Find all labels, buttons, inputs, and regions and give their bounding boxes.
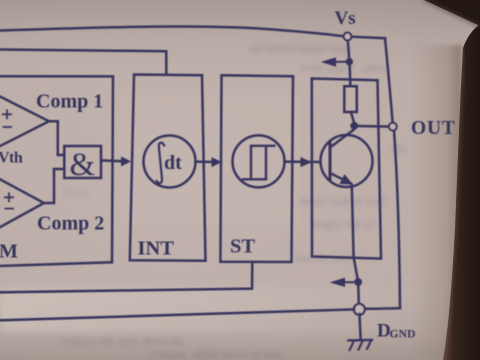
wire: right vertical drop from Vs rail to OUT terminal: [385, 38, 393, 123]
comp1 minus input mark: [4, 126, 12, 128]
current arrow at GND node: [345, 281, 355, 283]
wire: OUT terminal down right side: [394, 131, 400, 309]
wire: comp1 output to AND gate: [49, 121, 64, 155]
node: emitter/GND node: [355, 279, 362, 286]
wire: Vs terminal down to node: [348, 41, 349, 59]
wire: DGND terminal to ground symbol: [360, 314, 361, 339]
schmitt trigger circle: [233, 135, 285, 187]
wire: drop into INT box top: [165, 51, 168, 75]
transistor emitter stroke: [330, 173, 351, 184]
integral sign: [157, 143, 165, 184]
transistor collector stroke: [330, 126, 354, 148]
integrator circle U-INT: [144, 136, 196, 188]
AND gate box: [64, 146, 101, 178]
schmitt hysteresis glyph: [243, 146, 274, 180]
wire: resistor to collector node: [351, 112, 354, 122]
node: collector/OUT node: [351, 122, 358, 129]
wire: INT output toward ST with arrow: [196, 160, 217, 163]
schematic ink: [0, 26, 400, 349]
transistor base bar: [329, 142, 332, 180]
right dark photo edge: [443, 24, 480, 360]
wire: horizontal feed into INT top: [0, 50, 166, 52]
resistor R1: [344, 86, 357, 112]
comp1 plus input mark: [3, 110, 11, 118]
wire: emitter down to DGND: [352, 186, 359, 304]
wire: bottom right corner to DGND terminal: [365, 307, 401, 310]
wire: comp2 output to AND gate: [44, 169, 64, 203]
wire: AND output toward INT with arrow: [101, 159, 124, 162]
wire: feedback rail from ST bottom to left edge: [0, 262, 252, 292]
faint show-through text: [60, 40, 405, 360]
comp2 minus input mark: [6, 208, 14, 210]
wire: node to resistor: [348, 65, 351, 86]
wire: Vs terminal to right corner: [351, 37, 385, 39]
terminal Vs: [344, 33, 352, 41]
wire: ground rail to left edge: [0, 309, 354, 320]
comp2 plus input mark: [5, 193, 13, 201]
current arrow at supply node: [336, 61, 346, 63]
transistor Q1 circle: [321, 135, 373, 187]
ST box: [220, 75, 293, 262]
comparator Comp 2 triangle: [0, 175, 44, 232]
wire: ST output to transistor base with arrow: [285, 160, 321, 163]
ground symbol: [349, 339, 373, 342]
node: supply current node: [346, 59, 352, 65]
INT box: [130, 75, 206, 261]
terminal DGND: [354, 304, 365, 315]
output stage block box: [312, 79, 381, 259]
terminal OUT: [389, 123, 397, 131]
transistor emitter arrowhead: [340, 175, 352, 184]
wire: node to OUT terminal: [358, 125, 389, 128]
comparator Comp 1 triangle: [0, 93, 49, 151]
wire: top supply rail to Vs: [0, 26, 344, 36]
block M box: [0, 76, 113, 266]
